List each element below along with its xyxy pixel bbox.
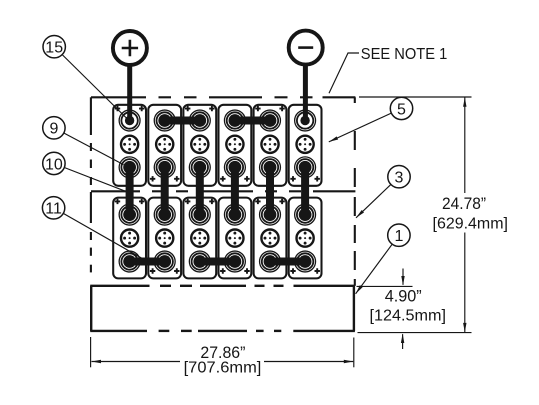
svg-text:[124.5mm]: [124.5mm]	[370, 308, 447, 325]
svg-text:11: 11	[45, 201, 62, 218]
svg-text:10: 10	[45, 156, 63, 173]
svg-text:1: 1	[394, 228, 403, 245]
svg-text:15: 15	[45, 40, 63, 57]
svg-text:[629.4mm]: [629.4mm]	[433, 216, 509, 233]
svg-text:3: 3	[395, 170, 404, 187]
svg-text:[707.6mm]: [707.6mm]	[184, 360, 262, 377]
svg-text:24.78”: 24.78”	[442, 194, 486, 213]
svg-text:4.90”: 4.90”	[385, 286, 422, 305]
svg-text:SEE NOTE 1: SEE NOTE 1	[361, 46, 448, 63]
svg-text:9: 9	[49, 121, 58, 138]
svg-text:5: 5	[397, 101, 406, 118]
